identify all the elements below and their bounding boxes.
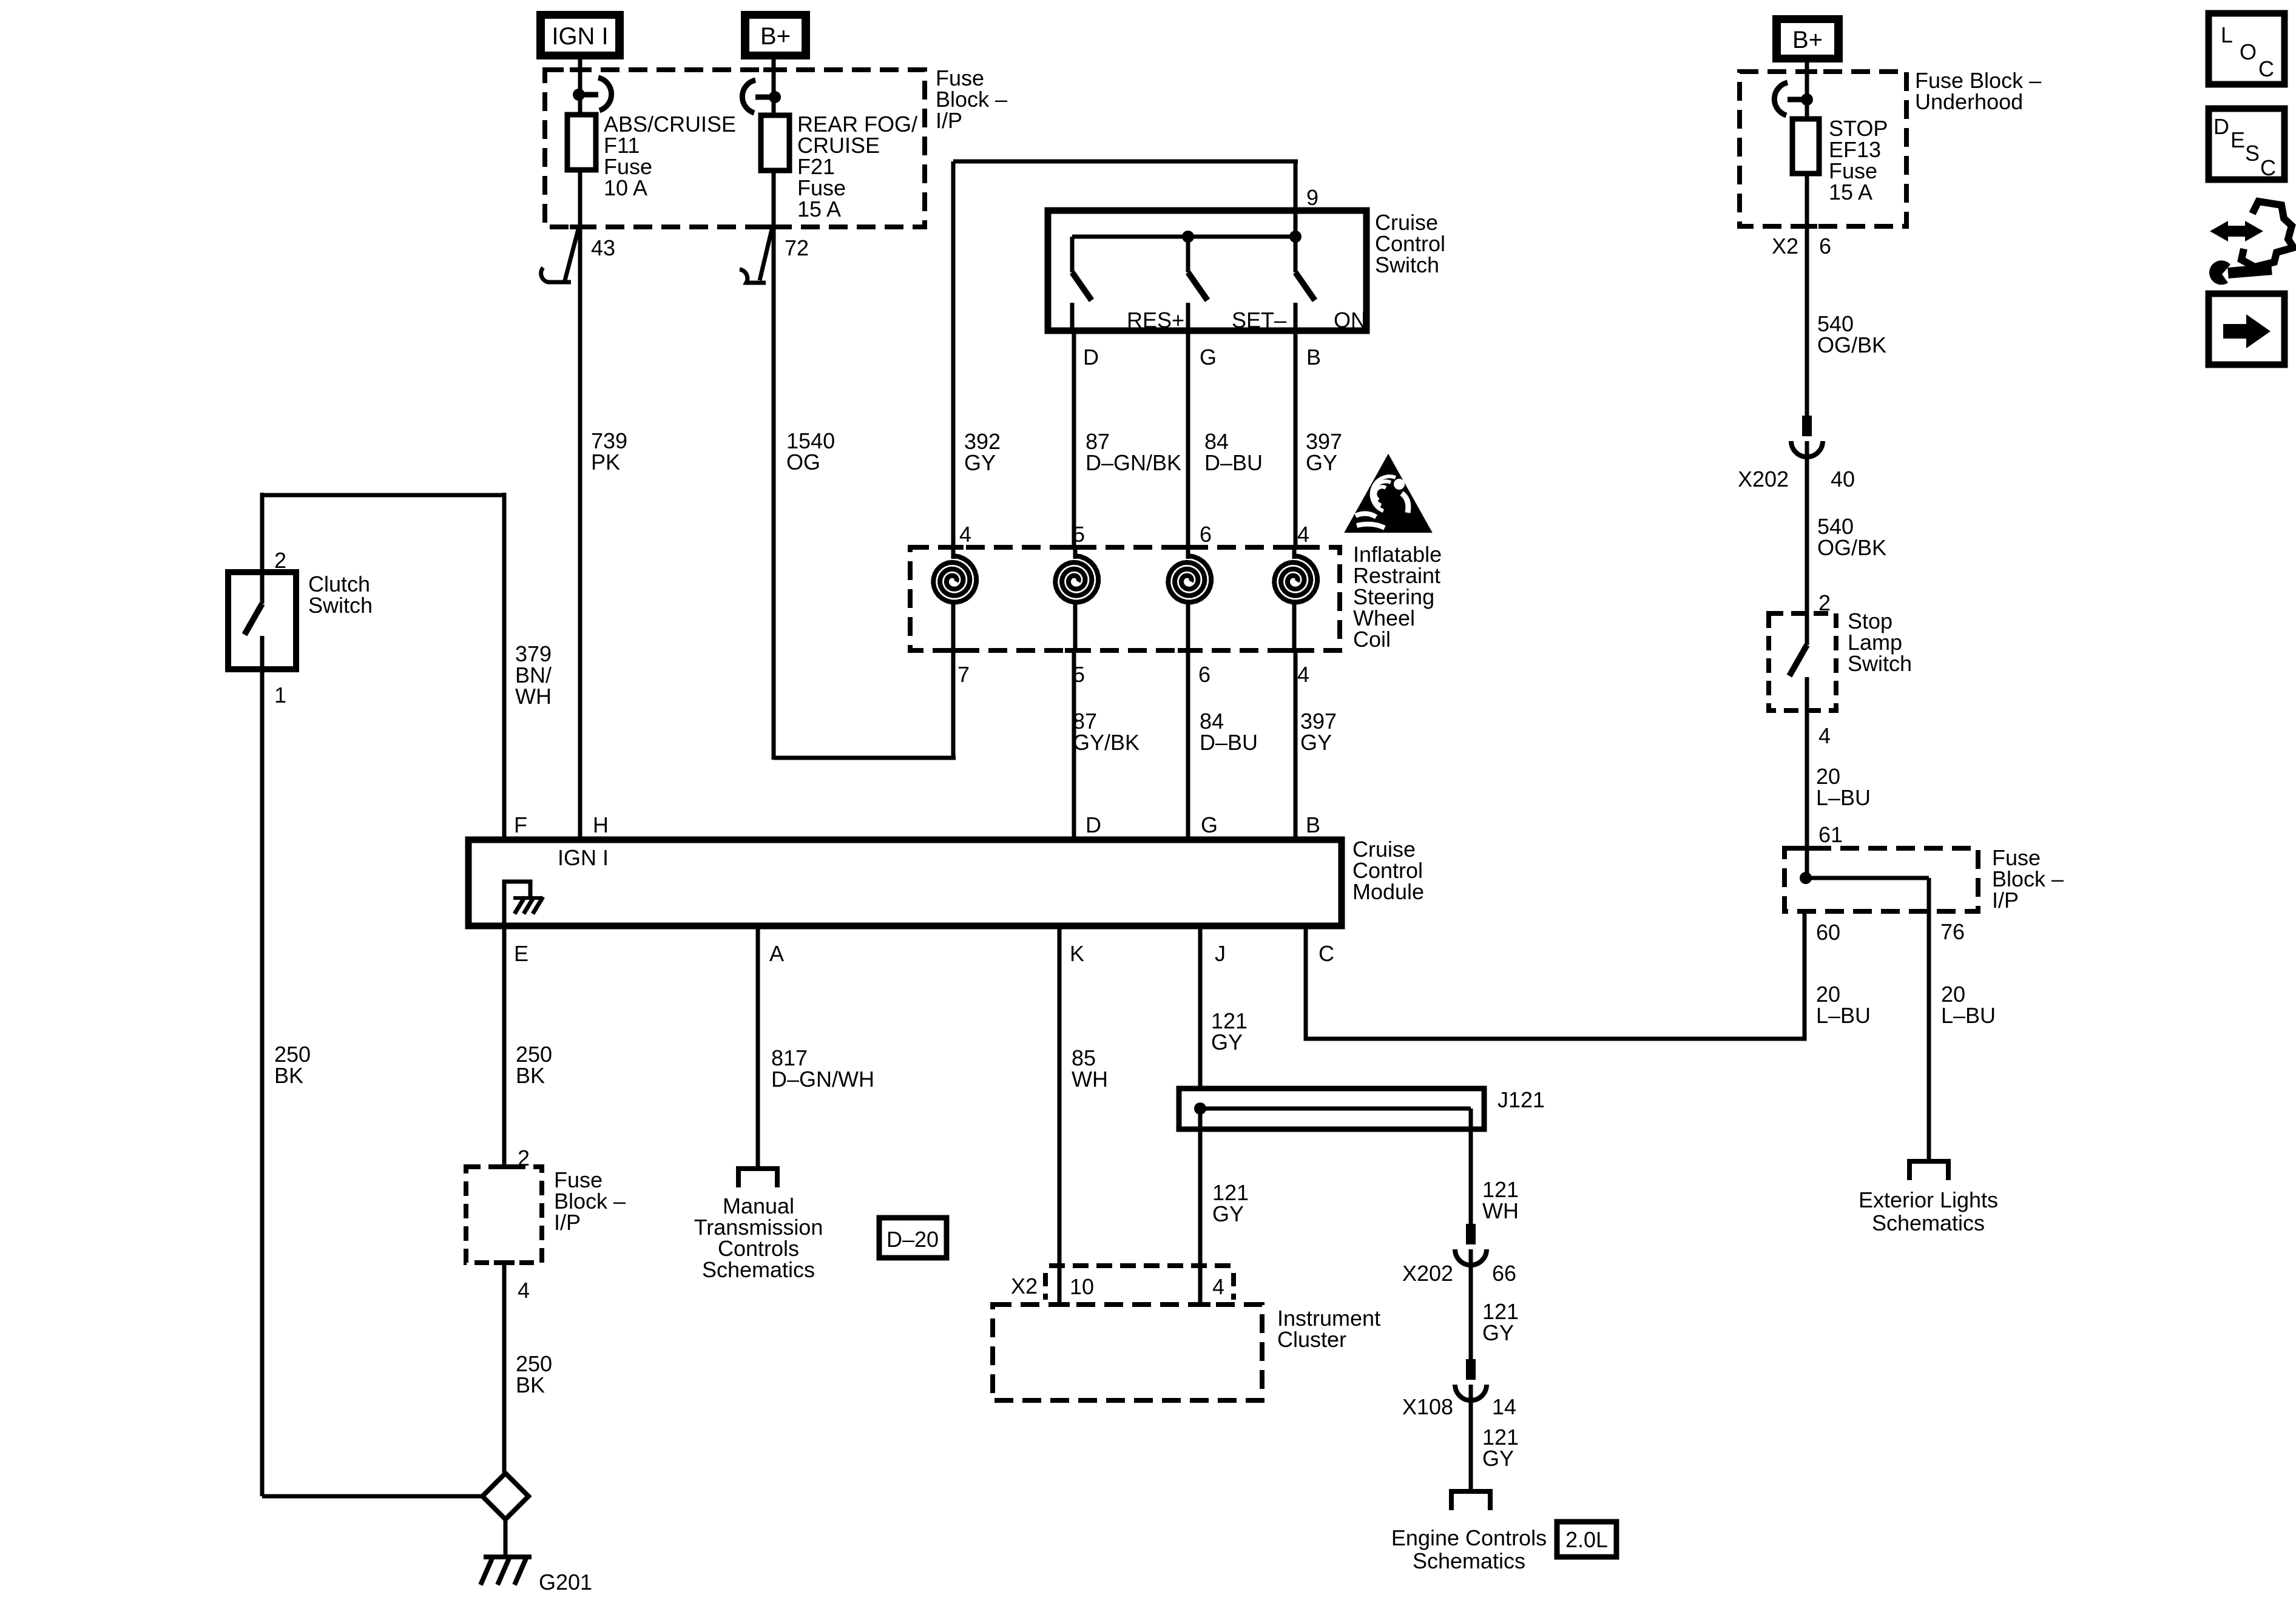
svg-text:Coil: Coil [1353, 627, 1391, 652]
svg-text:GY: GY [1300, 730, 1332, 755]
wire 121 WH from J121 down [1469, 1109, 1473, 1224]
svg-text:D–GN/BK: D–GN/BK [1086, 450, 1181, 475]
svg-text:OG: OG [786, 450, 820, 474]
module internal ground symbol [504, 882, 530, 923]
inline connector X108 [1466, 1359, 1476, 1380]
svg-text:WH: WH [515, 684, 552, 709]
svg-text:Underhood: Underhood [1915, 89, 2023, 114]
svg-text:14: 14 [1492, 1394, 1516, 1419]
coil spiral at x=2133 [1284, 545, 1305, 550]
svg-text:L–BU: L–BU [1816, 1003, 1871, 1028]
svg-text:BK: BK [516, 1063, 545, 1088]
svg-text:6: 6 [1198, 662, 1210, 687]
svg-text:GY: GY [1211, 1030, 1243, 1055]
svg-text:X2: X2 [1772, 234, 1798, 258]
svg-text:I/P: I/P [1992, 888, 2019, 913]
svg-text:IGN I: IGN I [552, 23, 608, 50]
airbag warning triangle symbol [1348, 459, 1428, 530]
svg-text:X2: X2 [1011, 1274, 1038, 1298]
bus terminal curl EF13 [1788, 97, 1804, 103]
svg-text:J121: J121 [1497, 1087, 1545, 1112]
tick cluster pin 10 [1049, 1302, 1070, 1307]
svg-text:IGN I: IGN I [558, 845, 609, 870]
svg-text:I/P: I/P [554, 1210, 581, 1235]
stop lamp switch dashed box [1769, 613, 1836, 711]
svg-text:BK: BK [274, 1063, 303, 1088]
fuse F21 REAR FOG/CRUISE [761, 115, 789, 170]
svg-text:C: C [2258, 56, 2274, 81]
wire down to clutch switch pin 2 [260, 493, 265, 572]
svg-text:ON: ON [1334, 308, 1366, 333]
off-page bracket engine controls [1451, 1491, 1490, 1510]
svg-text:GY: GY [1212, 1201, 1244, 1226]
svg-text:GY: GY [1482, 1446, 1514, 1471]
svg-text:C: C [2260, 155, 2276, 180]
svg-text:15 A: 15 A [797, 197, 841, 221]
tick at underhood fuse block top [1797, 69, 1817, 74]
svg-text:D–20: D–20 [886, 1227, 939, 1252]
tick at underhood fuse block bottom [1797, 224, 1817, 229]
svg-text:43: 43 [591, 235, 615, 260]
svg-text:66: 66 [1492, 1261, 1516, 1286]
svg-text:10: 10 [1070, 1274, 1094, 1299]
tick F21 wire at fuse block bottom [763, 224, 784, 229]
svg-text:4: 4 [1212, 1274, 1224, 1299]
wire B+ to underhood fuse block [1805, 62, 1809, 119]
svg-text:A: A [769, 941, 784, 966]
svg-text:X202: X202 [1402, 1261, 1453, 1286]
svg-text:B+: B+ [760, 23, 791, 50]
svg-text:B: B [1306, 345, 1321, 370]
wire 121 GY between connectors [1469, 1249, 1473, 1359]
svg-text:4: 4 [1297, 522, 1309, 547]
svg-text:H: H [593, 812, 609, 837]
svg-text:L–BU: L–BU [1941, 1003, 1996, 1028]
svg-text:15 A: 15 A [1829, 180, 1872, 204]
svg-text:4: 4 [1297, 662, 1309, 687]
svg-text:WH: WH [1072, 1067, 1108, 1092]
wire F21 fuse down (1540 OG) [772, 170, 776, 760]
svg-text:D: D [2213, 114, 2229, 139]
power feed box B+ (left) [741, 11, 810, 59]
svg-text:10 A: 10 A [604, 175, 647, 200]
svg-text:Switch: Switch [1375, 252, 1439, 277]
svg-text:2: 2 [274, 548, 286, 573]
junction dot F21 bus [769, 91, 781, 103]
switch ON blade [1295, 272, 1315, 300]
wire splice to ground [504, 1519, 508, 1557]
svg-text:B+: B+ [1792, 27, 1823, 53]
svg-text:4: 4 [1818, 723, 1831, 748]
connector terminal 72 symbol [760, 229, 772, 280]
fuse block internal wire to pin 76 [1806, 876, 1929, 880]
coil spiral at x=1772 [1065, 545, 1086, 550]
coil spiral at x=1958 [1178, 545, 1198, 550]
coil spiral at x=1571 [943, 545, 964, 550]
svg-text:GY/BK: GY/BK [1073, 730, 1140, 755]
svg-text:G: G [1201, 812, 1218, 837]
svg-text:D: D [1086, 812, 1101, 837]
wire IGN I to fuse block [578, 59, 582, 115]
svg-text:2.0L: 2.0L [1565, 1527, 1608, 1552]
cruise control module box [468, 840, 1342, 926]
svg-text:BK: BK [516, 1372, 545, 1397]
svg-text:GY: GY [1306, 450, 1337, 475]
svg-text:GY: GY [1482, 1320, 1514, 1345]
wire jog 1540 OG to coil column [774, 756, 956, 760]
switch SET- blade [1188, 272, 1207, 300]
svg-text:Schematics: Schematics [1413, 1548, 1525, 1573]
svg-text:Switch: Switch [1848, 651, 1912, 676]
svg-text:76: 76 [1940, 919, 1965, 944]
wire 87 D-GN/BK switch D to coil [1072, 331, 1076, 547]
tick F21 wire at fuse block top [763, 67, 784, 72]
svg-text:4: 4 [959, 522, 971, 547]
bus terminal curl F11 [581, 92, 598, 98]
svg-text:GY: GY [964, 450, 996, 475]
reference box D-20 [879, 1218, 947, 1258]
svg-text:K: K [1070, 941, 1084, 966]
svg-text:PK: PK [591, 450, 620, 474]
svg-text:D: D [1083, 345, 1099, 370]
junction dot fuse block I/P [1800, 872, 1812, 884]
svg-text:L–BU: L–BU [1816, 785, 1871, 810]
ground symbol G201 [484, 1555, 532, 1559]
off-page bracket exterior lights [1909, 1161, 1948, 1180]
wire 250 BK to splice diamond [502, 1263, 507, 1476]
wire 85 WH module K to instrument cluster [1058, 926, 1062, 1306]
svg-text:Schematics: Schematics [702, 1257, 815, 1282]
fuse block I/P dashed box (bottom left) [466, 1167, 542, 1263]
wire coil G to module G [1186, 650, 1190, 840]
power feed box B+ (right) [1772, 15, 1843, 62]
reference box 2.0L [1557, 1522, 1616, 1557]
inline connector X202 (brake feed) [1802, 416, 1812, 436]
svg-text:F: F [514, 812, 527, 837]
connector X2 row dashed [1049, 1263, 1232, 1268]
wire 121 GY J121 to cluster pin 4 [1198, 1109, 1203, 1306]
wire 392 GY top horizontal to switch pin 9 [953, 160, 1298, 164]
splice pack J121 box [1179, 1089, 1484, 1129]
off-page bracket manual transmission [738, 1169, 777, 1187]
wire 379 BN/WH horizontal [262, 493, 504, 498]
fuse block I/P dashed box [545, 70, 925, 227]
svg-text:C: C [1319, 941, 1334, 966]
switch RES+ blade [1186, 237, 1190, 272]
inflatable restraint steering wheel coil dashed box [910, 547, 1340, 650]
splice diamond [482, 1473, 528, 1519]
svg-text:O: O [2240, 39, 2257, 64]
svg-text:OG/BK: OG/BK [1817, 333, 1886, 357]
svg-text:WH: WH [1482, 1198, 1519, 1223]
svg-text:D–BU: D–BU [1204, 450, 1263, 475]
wire pin 9 drop into switch [1294, 161, 1298, 237]
connector terminal 43 symbol [565, 229, 578, 280]
svg-text:X108: X108 [1402, 1394, 1453, 1419]
instrument cluster dashed box [993, 1305, 1262, 1400]
wire F11 fuse to module pin H (739 PK) [578, 170, 582, 840]
wire B+ to fuse block [772, 59, 776, 115]
tick F11 wire at fuse block top [570, 67, 590, 72]
svg-text:I/P: I/P [936, 108, 962, 133]
wire 84 D-BU switch G to coil [1186, 331, 1190, 547]
svg-text:X202: X202 [1738, 467, 1789, 491]
svg-text:D–GN/WH: D–GN/WH [771, 1067, 874, 1092]
wire 540 OG/BK fuse to X202 [1805, 174, 1809, 416]
svg-text:Module: Module [1352, 879, 1424, 904]
cruise control switch box [1048, 211, 1366, 331]
fuse EF13 STOP [1792, 119, 1819, 174]
svg-text:7: 7 [957, 662, 970, 687]
wire coil pin7 down to jog [951, 650, 956, 760]
svg-text:D–BU: D–BU [1200, 730, 1258, 755]
power feed box IGN I [536, 11, 624, 59]
svg-text:OG/BK: OG/BK [1817, 535, 1886, 560]
svg-text:61: 61 [1818, 822, 1843, 847]
svg-text:9: 9 [1306, 185, 1319, 210]
fuse block I/P dashed box (right) [1784, 848, 1978, 911]
svg-text:S: S [2245, 141, 2260, 166]
wire 540 OG/BK to stop lamp switch [1805, 441, 1809, 613]
wire 121 GY to engine controls [1469, 1385, 1473, 1491]
junction dot F11 bus [573, 89, 585, 101]
svg-text:6: 6 [1200, 522, 1212, 547]
svg-text:E: E [2230, 127, 2245, 152]
stop lamp switch blade [1805, 613, 1809, 645]
inline connector X202 (lower) [1466, 1224, 1476, 1244]
svg-text:6: 6 [1819, 234, 1831, 258]
svg-text:Exterior Lights: Exterior Lights [1859, 1187, 1998, 1212]
wire 379 BN/WH to module pin F [502, 493, 507, 840]
junction dot in J121 [1194, 1102, 1206, 1115]
svg-text:L: L [2221, 22, 2233, 47]
bus terminal curl F21 [755, 95, 772, 100]
J121 internal bus wire [1200, 1107, 1471, 1111]
svg-text:Switch: Switch [308, 593, 373, 618]
junction dot bus ON [1289, 231, 1302, 243]
svg-text:B: B [1306, 812, 1320, 837]
svg-text:G: G [1200, 345, 1217, 370]
wire coil B to module B [1294, 650, 1298, 840]
wire coil D to module D [1072, 650, 1076, 840]
svg-text:Schematics: Schematics [1872, 1210, 1985, 1235]
svg-text:RES+: RES+ [1127, 308, 1184, 333]
switch internal bus wire [1072, 235, 1295, 239]
tick cluster pin 4 [1190, 1302, 1210, 1307]
wire 250 BK clutch to ground splice [260, 669, 265, 1496]
legend box forward arrow [2209, 294, 2284, 365]
svg-text:40: 40 [1831, 467, 1855, 491]
svg-text:72: 72 [785, 235, 809, 260]
fuse F11 ABS/CRUISE [567, 115, 596, 170]
wire 817 D-GN/WH module A down [756, 926, 760, 1169]
svg-text:SET–: SET– [1232, 308, 1286, 333]
junction dot EF13 bus [1801, 93, 1813, 106]
legend box DESC [2209, 109, 2284, 180]
wire 250 BK module E down [502, 926, 507, 1167]
wire 397 GY switch B to coil [1294, 331, 1298, 547]
junction dot bus SET- [1182, 231, 1194, 243]
legend service icon arrows and wrench [2226, 226, 2247, 237]
svg-text:Engine Controls: Engine Controls [1391, 1525, 1547, 1550]
tick F11 wire at fuse block bottom [570, 224, 590, 229]
wire 121 GY module J to J121 [1198, 926, 1203, 1089]
svg-text:E: E [514, 941, 528, 966]
svg-text:Cluster: Cluster [1277, 1327, 1346, 1352]
svg-text:J: J [1215, 941, 1226, 966]
svg-text:1: 1 [274, 683, 286, 707]
wire 20 L-BU module C to fuse block [1306, 911, 1805, 1039]
svg-text:4: 4 [518, 1278, 530, 1303]
legend box LOC [2209, 13, 2284, 84]
clutch switch box [228, 572, 296, 669]
wire splice horizontal to diamond [262, 1494, 485, 1499]
svg-text:60: 60 [1816, 920, 1840, 945]
svg-text:5: 5 [1073, 522, 1085, 547]
svg-text:G201: G201 [539, 1570, 592, 1595]
clutch switch blade [260, 572, 265, 604]
wire 20 L-BU to fuse block I/P [1805, 711, 1809, 878]
fuse block underhood dashed box [1740, 72, 1906, 226]
